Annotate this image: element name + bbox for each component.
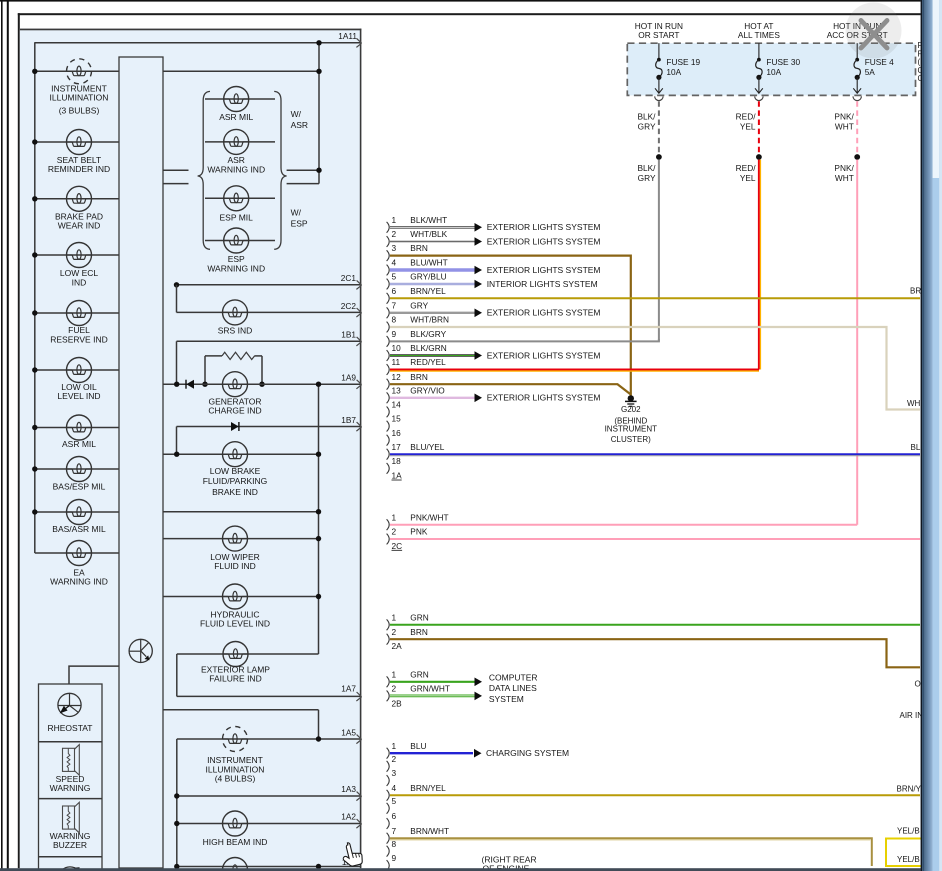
wire BRN/WHT pin 7 to bottom edge [390,838,872,866]
lamp FUEL RESERVE IND [35,312,119,314]
window top edge [0,0,935,2]
svg-text:CHARGE IND: CHARGE IND [208,406,261,416]
svg-text:1A11: 1A11 [338,31,357,41]
svg-text:BLU/WHT: BLU/WHT [410,258,447,268]
lamp ASR MIL [35,427,119,429]
pin 17 BLU/YEL [387,449,390,460]
svg-text:PNK/WHT: PNK/WHT [410,512,448,522]
wire rheostat feed [69,666,119,684]
right tie bus [318,384,320,654]
svg-text:5A: 5A [865,67,876,77]
wire GRN 2B pin 1 to computer data lines [390,681,475,683]
pin 3 [387,775,390,786]
pin 15 [387,421,390,432]
svg-text:INSTRUMENT: INSTRUMENT [605,425,658,434]
pin 7 BRN/WHT [387,833,390,844]
svg-text:5: 5 [392,796,397,806]
connector 2A [387,612,429,651]
svg-text:EXTERIOR LIGHTS SYSTEM: EXTERIOR LIGHTS SYSTEM [487,265,601,275]
lamp SRS IND / wire 2C2 [177,311,362,313]
svg-text:RESERVE IND: RESERVE IND [50,334,107,344]
highlight box YEL/B [886,839,924,867]
pin 1 BLU [387,748,390,759]
svg-text:FUSE 19: FUSE 19 [666,57,700,67]
connector cup [755,96,763,100]
svg-text:2: 2 [392,684,397,694]
pin 13 GRY/VIO [387,392,390,403]
lamp LOW BRAKE FLUID/PARKING BRAKE IND [163,453,319,455]
wire 1B1 [177,340,362,342]
svg-text:1A7: 1A7 [341,683,356,693]
svg-text:2C: 2C [392,541,403,551]
svg-text:GRY/BLU: GRY/BLU [410,272,446,282]
fuse block box (dashed) [627,43,915,95]
connector cup [655,96,663,100]
svg-text:YEL/B: YEL/B [897,826,920,835]
wire 1A11 feed bus [35,42,361,44]
svg-text:3: 3 [392,768,397,778]
svg-text:BLK/: BLK/ [638,163,657,173]
fuse FUSE 19 10A [658,43,660,59]
pin 1 GRN [387,676,390,687]
svg-text:EXTERIOR LIGHTS SYSTEM: EXTERIOR LIGHTS SYSTEM [487,350,601,360]
wire 1A9 row [163,383,361,385]
svg-text:GRN: GRN [410,612,428,622]
wire lamp row to vertical [163,70,319,72]
svg-text:BLK/WHT: BLK/WHT [410,215,447,225]
svg-text:BLK/: BLK/ [638,111,657,121]
svg-text:16: 16 [392,428,402,438]
svg-text:4: 4 [392,783,397,793]
svg-text:(4 BULBS): (4 BULBS) [215,774,256,784]
wire BLU/YEL pin 17 to right edge [390,453,920,455]
pin 2 BRN [387,634,390,645]
svg-text:RED/YEL: RED/YEL [410,357,446,367]
lamp BAS/ASR MIL [35,511,119,513]
wire 1B7 [177,426,362,428]
lamp HIGH BEAM IND / wire 1A2 [177,823,361,825]
left drop bus lower [176,739,178,867]
gauge symbol (cut off) [58,867,81,871]
svg-text:OR START: OR START [638,30,679,40]
svg-text:2A: 2A [392,641,403,651]
brace right of ASR/ESP lamps [274,91,286,249]
diode D1 on 1A9 row [186,380,194,389]
svg-text:GRN/WHT: GRN/WHT [410,684,450,694]
svg-text:4: 4 [392,258,397,268]
svg-text:1: 1 [392,215,397,225]
svg-text:WARNING IND: WARNING IND [207,164,265,174]
svg-text:12: 12 [392,372,402,382]
svg-text:BRN/YEL: BRN/YEL [410,286,446,296]
svg-text:2B: 2B [392,698,403,708]
svg-text:1A3: 1A3 [341,784,356,794]
wire WHT/BRN pin 8 to right edge [390,327,920,410]
mouse cursor [340,840,364,868]
svg-text:10A: 10A [666,67,681,77]
wire GRY/BLU pin 5 to interior lights [390,283,475,285]
svg-text:BRN: BRN [410,243,428,253]
svg-text:RED/: RED/ [736,163,757,173]
connector cup [853,96,861,100]
transistor symbol [129,639,152,662]
svg-text:1: 1 [392,612,397,622]
svg-text:HIGH BEAM IND: HIGH BEAM IND [203,837,268,847]
lamp ASR MIL [205,98,275,100]
wire GRN 2A pin 1 to right edge [390,624,920,626]
svg-text:2: 2 [392,627,397,637]
svg-text:ASR MIL: ASR MIL [62,439,96,449]
pin 3 BRN [387,250,390,261]
pin 8 WHT/BRN [387,322,390,333]
svg-text:3: 3 [392,243,397,253]
svg-text:ESP: ESP [291,218,308,228]
lamp INSTRUMENT ILLUMINATION (4 BULBS) / wire 1A5 [177,738,361,740]
svg-text:WHT/BLK: WHT/BLK [410,229,447,239]
svg-text:EXTERIOR LIGHTS SYSTEM: EXTERIOR LIGHTS SYSTEM [487,393,601,403]
svg-text:7: 7 [392,826,397,836]
rheostat unit box [39,684,103,871]
lamp INSTRUMENT ILLUMINATION (3 BULBS) [35,70,119,72]
main diagram frame [18,13,20,868]
svg-text:AIR IN: AIR IN [900,711,924,720]
wire BAS/ASR row tie [163,511,319,513]
wire BLU/WHT pin 4 to exterior lights [390,269,475,272]
svg-text:ASR: ASR [291,120,308,130]
pin 2 PNK [387,534,390,545]
wire PNK 2C pin 2 to right edge [390,538,920,540]
lamp ESP MIL [205,197,275,199]
lamp LOW WIPER FLUID IND [163,538,319,540]
wire GRY pin 7 to exterior lights [390,312,475,314]
svg-text:WEAR IND: WEAR IND [58,221,101,231]
svg-text:INTERIOR LIGHTS SYSTEM: INTERIOR LIGHTS SYSTEM [487,279,598,289]
svg-text:W/: W/ [291,207,302,217]
lamp ASR WARNING IND [205,141,275,143]
svg-text:RED/: RED/ [736,111,757,121]
wire 2C1 [177,284,362,286]
bottom lamp row wire 1A1 [177,866,361,868]
svg-text:EXTERIOR LIGHTS SYSTEM: EXTERIOR LIGHTS SYSTEM [487,236,601,246]
wire GRN/WHT 2B pin 2 to computer data lines [390,695,475,698]
svg-text:1A: 1A [392,471,403,481]
pin 2 [387,761,390,772]
wire BRN 2A pin 2 to right edge [390,639,920,667]
speaker SPEED WARNING [63,748,75,771]
svg-text:EXTERIOR LIGHTS SYSTEM: EXTERIOR LIGHTS SYSTEM [487,308,601,318]
svg-text:REMINDER IND: REMINDER IND [48,164,110,174]
speaker WARNING BUZZER [63,806,75,829]
svg-text:BLU/YEL: BLU/YEL [410,442,445,452]
svg-text:IND: IND [72,277,87,287]
svg-text:RHEOSTAT: RHEOSTAT [47,723,92,733]
svg-text:ESP MIL: ESP MIL [220,213,254,223]
svg-text:DATA LINES: DATA LINES [489,683,537,693]
instrument cluster panel [20,29,362,869]
svg-text:WHT/BRN: WHT/BRN [410,315,449,325]
svg-text:FLUID/PARKING: FLUID/PARKING [203,476,268,486]
bottom window band [0,868,942,871]
svg-text:13: 13 [392,385,402,395]
svg-text:PNK: PNK [410,527,428,537]
node splice RED/YEL [756,154,762,160]
svg-text:1B7: 1B7 [341,415,356,425]
svg-text:1: 1 [392,512,397,522]
svg-text:10A: 10A [766,67,781,77]
lamp HYDRAULIC FLUID LEVEL IND [163,596,319,598]
svg-text:2: 2 [392,754,397,764]
brace left of ASR/ESP lamps [198,91,210,249]
fuse FUSE 4 5A [856,43,858,59]
diode D2 on 1B7 wire [231,422,239,431]
svg-text:2: 2 [392,229,397,239]
svg-text:6: 6 [392,811,397,821]
svg-text:ILLUMINATION: ILLUMINATION [50,93,109,103]
svg-text:WHT: WHT [835,173,854,183]
svg-text:17: 17 [392,442,402,452]
pin 11 RED/YEL [387,364,390,375]
svg-text:CHARGING SYSTEM: CHARGING SYSTEM [486,748,569,758]
lamp LOW OIL LEVEL IND [35,369,119,371]
svg-text:(3 BULBS): (3 BULBS) [59,106,100,116]
svg-text:2: 2 [392,527,397,537]
wire BLK/GRY pin 9 to fuse 19 [390,339,659,341]
wire row tie to 1A5 [163,709,319,711]
pin 5 GRY/BLU [387,279,390,290]
lamp BRAKE PAD WEAR IND [35,198,119,200]
svg-text:FAILURE IND: FAILURE IND [209,674,261,684]
svg-text:6: 6 [392,286,397,296]
svg-text:GRY: GRY [638,173,656,183]
left supply bus [34,42,36,553]
pin 8 [387,846,390,857]
lamp EXTERIOR LAMP FAILURE IND [177,653,319,655]
svg-text:BUZZER: BUZZER [53,840,87,850]
svg-text:10: 10 [392,343,402,353]
svg-text:YEL/B: YEL/B [897,855,920,864]
pin 9 [387,860,390,871]
svg-text:BLU: BLU [410,741,426,751]
pin 1 GRN [387,619,390,630]
resistor shunt over GENERATOR CHARGE IND [204,356,206,384]
svg-text:LOW BRAKE: LOW BRAKE [210,466,261,476]
svg-text:PNK/: PNK/ [834,111,854,121]
cluster inner connector box [119,57,163,868]
svg-text:FUSE 30: FUSE 30 [766,57,800,67]
pin 4 BLU/WHT [387,265,390,276]
wire BRN pin 12 to G202 [390,384,631,394]
svg-text:1A9: 1A9 [341,372,356,382]
svg-text:BRN: BRN [410,372,428,382]
svg-text:18: 18 [392,456,402,466]
pin 2 WHT/BLK [387,236,390,247]
svg-text:SRS IND: SRS IND [218,326,252,336]
pin 14 [387,407,390,418]
svg-text:BLK/GRY: BLK/GRY [410,329,446,339]
svg-text:YEL: YEL [740,121,756,131]
connector 1A [387,215,449,481]
wire 1A7 [176,654,178,696]
close button [846,3,902,59]
pin 9 BLK/GRY [387,336,390,347]
rheostat symbol [58,693,81,716]
wire 1A3 [177,795,361,797]
ground G202 [628,395,634,401]
svg-text:8: 8 [392,315,397,325]
svg-text:BRN/YEL: BRN/YEL [410,783,446,793]
connector 2C [387,512,449,551]
lamp GENERATOR CHARGE IND [223,372,248,397]
svg-text:WARNING IND: WARNING IND [207,263,265,273]
wire stubs to brace group [163,169,189,171]
lamp LOW ECL IND [35,254,119,256]
svg-text:GRY: GRY [638,121,656,131]
window left edge lines [1,0,3,871]
lamp BAS/ESP MIL [35,468,119,470]
svg-text:FLUID LEVEL IND: FLUID LEVEL IND [200,618,270,628]
svg-text:CLUSTER): CLUSTER) [611,435,651,444]
pin 5 [387,803,390,814]
svg-text:WARNING: WARNING [50,783,91,793]
svg-text:5: 5 [392,272,397,282]
lamp ESP WARNING IND [205,240,275,242]
lamp EA WARNING IND [35,552,119,554]
svg-text:FLUID IND: FLUID IND [214,561,256,571]
svg-text:GRY: GRY [410,300,428,310]
wire BLK/GRN pin 10 to exterior lights [390,354,475,357]
svg-text:EXTERIOR LIGHTS SYSTEM: EXTERIOR LIGHTS SYSTEM [487,222,601,232]
pin 18 [387,463,390,474]
wire BLK/GRY dashed from FUSE 19 [658,101,660,154]
svg-text:GRN: GRN [410,669,428,679]
svg-text:BLK/GRN: BLK/GRN [410,343,446,353]
svg-text:2C2: 2C2 [341,301,357,311]
pin 7 GRY [387,307,390,318]
pin 1 BLK/WHT [387,222,390,233]
svg-text:BRN: BRN [410,627,428,637]
pin 12 BRN [387,379,390,390]
svg-text:LEVEL IND: LEVEL IND [57,391,100,401]
scrollbar [921,0,942,871]
svg-text:1A5: 1A5 [341,727,356,737]
lamp SEAT BELT REMINDER IND [35,141,119,143]
connector 1M (bottom) [387,741,449,871]
svg-text:BRN/WHT: BRN/WHT [410,826,449,836]
svg-text:1A2: 1A2 [341,811,356,821]
svg-text:BRAKE IND: BRAKE IND [212,487,258,497]
wire 1B1 drop [176,341,178,384]
pin 1 PNK/WHT [387,519,390,530]
svg-text:11: 11 [392,357,401,367]
wire 1B7 drop [176,427,178,455]
pin 10 BLK/GRN [387,350,390,361]
svg-text:WHT: WHT [835,121,854,131]
wire BLK/WHT pin 1 to exterior lights [390,226,475,229]
node splice PNK/WHT [854,154,860,160]
svg-text:GRY/VIO: GRY/VIO [410,385,445,395]
node splice BLK/GRY [656,154,662,160]
wire GRY/VIO pin 13 to exterior lights [390,397,475,399]
svg-text:FUSE 4: FUSE 4 [865,57,894,67]
svg-text:YEL: YEL [740,173,756,183]
svg-text:WARNING IND: WARNING IND [50,577,108,587]
wire 2C1 to SRS IND [176,285,178,313]
svg-text:ASR MIL: ASR MIL [219,112,253,122]
svg-text:ALL TIMES: ALL TIMES [738,30,780,40]
svg-text:2C1: 2C1 [341,273,357,283]
svg-text:7: 7 [392,300,397,310]
wire BRN/YEL pin 4 to right edge [390,794,920,796]
svg-text:PNK/: PNK/ [834,163,854,173]
svg-text:COMPUTER: COMPUTER [489,672,538,682]
svg-text:1: 1 [392,669,397,679]
wire PNK/WHT 2C pin 1 to fuse 4 [390,524,857,526]
svg-text:9: 9 [392,853,397,863]
wire WHT/BLK pin 2 to exterior lights [390,240,475,243]
pin 6 [387,818,390,829]
wire RED/YEL dashed from FUSE 30 [758,101,760,154]
pin 6 BRN/YEL [387,293,390,304]
svg-text:1B1: 1B1 [341,330,356,340]
svg-text:W/: W/ [291,109,302,119]
connector 2B [387,669,450,708]
svg-text:15: 15 [392,414,402,424]
wire PNK/WHT dashed from FUSE 4 [856,101,858,154]
svg-text:1: 1 [392,741,397,751]
wire BLU pin 1 to charging system [390,752,473,754]
vertical wire to ASR/ESP group [318,43,320,184]
svg-text:9: 9 [392,329,397,339]
wire RED/YEL pin 11 to fuse 30 [390,369,759,371]
svg-text:SYSTEM: SYSTEM [489,694,524,704]
svg-text:14: 14 [392,400,402,410]
svg-text:BAS/ASR MIL: BAS/ASR MIL [52,524,106,534]
fuse FUSE 30 10A [758,43,760,59]
pin 16 [387,435,390,446]
pin 4 BRN/YEL [387,790,390,801]
svg-text:BAS/ESP MIL: BAS/ESP MIL [53,481,106,491]
pin 2 GRN/WHT [387,691,390,702]
wire BRN pin 3 to G202 [390,256,631,396]
svg-text:G202: G202 [621,405,641,414]
wire BRN/YEL pin 6 to right edge [390,297,920,299]
